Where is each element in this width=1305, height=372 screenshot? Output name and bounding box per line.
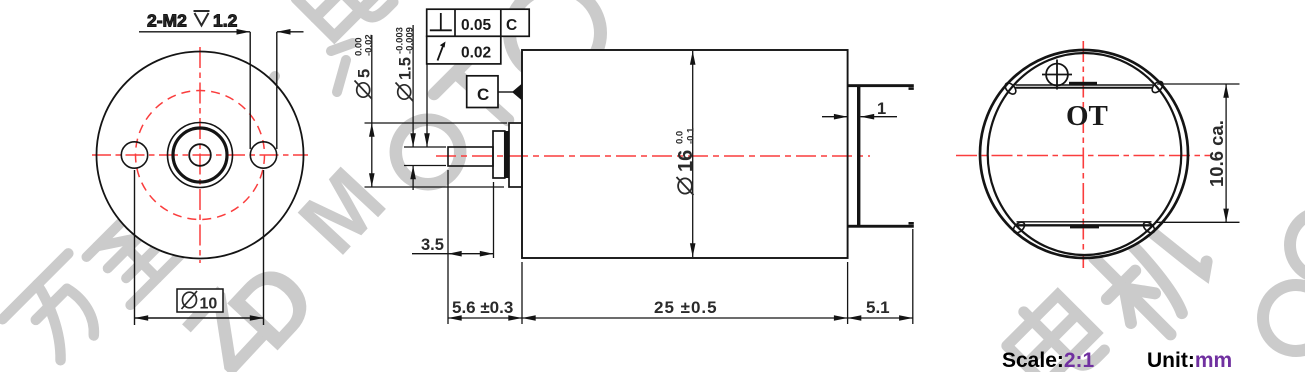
svg-text:1: 1 [877, 100, 886, 118]
watermark char dian top [289, 0, 399, 49]
svg-text:1.2: 1.2 [213, 11, 238, 31]
datum C box [467, 76, 498, 108]
rear chord end slot top-right [1150, 79, 1165, 94]
svg-text:-0.1: -0.1 [686, 127, 697, 144]
dimension 5.1 arrows [848, 315, 913, 321]
svg-text:0.05: 0.05 [461, 17, 492, 34]
top terminal [848, 84, 914, 87]
rear chord end slot top-left [1003, 81, 1018, 96]
watermark letter O1 ring [396, 120, 460, 184]
svg-text:3.5: 3.5 [421, 236, 444, 254]
side view red centerline [436, 155, 870, 157]
svg-text:OT: OT [1066, 100, 1108, 132]
rear bottom tab [1070, 225, 1099, 228]
dimension text 10.6 ca. (rotated) [1206, 120, 1227, 187]
svg-text:C: C [477, 85, 489, 104]
front view left mounting hole [121, 142, 147, 168]
bearing crosshair symbol [1042, 60, 1072, 90]
front boss D5 [509, 123, 522, 187]
svg-text:5.6 ±0.3: 5.6 ±0.3 [452, 298, 513, 317]
svg-text:C: C [506, 17, 517, 34]
rear bottom chord lines [1017, 221, 1152, 223]
dimension 2-M2 depth 1.2 leader lines [139, 32, 304, 149]
feature control frame perpendicularity [427, 9, 530, 36]
dimension 10.6 arrows [1223, 84, 1229, 222]
rear endcap (bold) [857, 87, 860, 226]
svg-text:Unit:mm: Unit:mm [1147, 349, 1232, 372]
rear view red vertical centerline [1082, 41, 1084, 268]
svg-text:0.0: 0.0 [675, 131, 686, 144]
dimension D5 extension lines [365, 35, 508, 187]
front view red vertical centerline [199, 47, 201, 263]
dimension D10 arrows [135, 315, 264, 321]
perpendicularity symbol [430, 13, 452, 30]
dimension D16 line [692, 51, 694, 257]
dimension D5 arrows [369, 123, 375, 187]
svg-text:5: 5 [356, 69, 374, 78]
dimension 10.6 lines [1155, 84, 1240, 222]
dimension 25 arrows [522, 315, 848, 321]
rear outer circle [980, 50, 1188, 258]
dimension D10 extension lines [135, 170, 264, 325]
front view red horizontal centerline [92, 154, 308, 156]
datum leader [498, 91, 513, 93]
bottom dimension lines [448, 229, 913, 324]
bottom terminal end tick [909, 222, 914, 225]
watermark char zhi [84, 205, 184, 305]
rear top tab [1069, 82, 1097, 85]
front view boss circle [168, 123, 233, 188]
rear top chord lines [1016, 84, 1154, 86]
svg-text:-0.009: -0.009 [404, 27, 415, 54]
watermark letter O2 ring [510, 0, 601, 79]
front view bearing circle (bold) [173, 128, 227, 182]
watermark char dian (bottom right) [998, 286, 1108, 372]
svg-text:Scale:2:1: Scale:2:1 [1002, 349, 1095, 372]
dimension 3.5 arrows [448, 251, 494, 257]
bottom terminal [848, 225, 914, 228]
dimension D16 arrows [690, 51, 696, 257]
dimension D10 text [200, 296, 218, 313]
svg-text:10.6 ca.: 10.6 ca. [1206, 120, 1227, 187]
front view red bolt circle [136, 91, 265, 220]
datum filled triangle [512, 84, 522, 101]
svg-text:1.5: 1.5 [397, 57, 415, 80]
dimension D10 box [177, 289, 223, 312]
dimension D1.5 extension lines [404, 25, 446, 190]
dimension 2-M2 arrows [237, 29, 291, 35]
runout symbol arrow [438, 46, 444, 61]
dimension 3.5 lines [412, 170, 494, 324]
depth symbol [194, 11, 210, 26]
watermark fragment strokes below dian [331, 43, 353, 92]
dimension text D16 with tolerance (rotated) [675, 127, 698, 195]
svg-text:16: 16 [675, 150, 697, 172]
runout leader to shaft [426, 64, 428, 147]
watermark ring right edge [1290, 212, 1305, 278]
watermark char wan [3, 253, 123, 372]
rear view red horizontal centerline [956, 155, 1212, 157]
dimension 1 arrows (outside) [834, 114, 874, 120]
rear inner circle [988, 53, 1182, 255]
dimension text D1.5 with tolerance (rotated) [394, 27, 415, 101]
watermark letter T strokes [456, 73, 509, 120]
diameter symbol of D10 [182, 291, 198, 309]
front view right mounting hole [250, 142, 276, 168]
watermark ring bottom right [1263, 285, 1305, 351]
bearing washer (bold) [505, 131, 509, 178]
svg-text:-0.02: -0.02 [363, 34, 374, 56]
feature control frame runout [427, 36, 501, 64]
dimension text D5 with tolerance (rotated) [353, 34, 374, 99]
dimension D1.5 arrows (outside) [410, 133, 416, 179]
svg-text:0.02: 0.02 [461, 45, 491, 62]
top terminal end tick [909, 87, 914, 90]
dimension 1 lines [822, 116, 897, 118]
svg-text:25 ±0.5: 25 ±0.5 [654, 298, 718, 317]
watermark char ji [1080, 204, 1225, 349]
svg-text:2-M2: 2-M2 [147, 11, 187, 31]
svg-text:10: 10 [200, 296, 218, 313]
rear chord end slot bottom-left [1011, 220, 1026, 235]
rear chord end slot bottom-right [1141, 220, 1156, 235]
dimension 5.6 arrows [448, 315, 522, 321]
svg-text:5.1: 5.1 [866, 298, 890, 317]
shaft D1.5 [448, 147, 493, 166]
motor body rectangle [522, 50, 848, 258]
front view shaft circle [189, 144, 211, 166]
front view outer circle [97, 52, 304, 259]
collar [493, 131, 505, 178]
WHITE MASKS [97, 50, 1189, 259]
watermark char da fragment [243, 70, 275, 130]
